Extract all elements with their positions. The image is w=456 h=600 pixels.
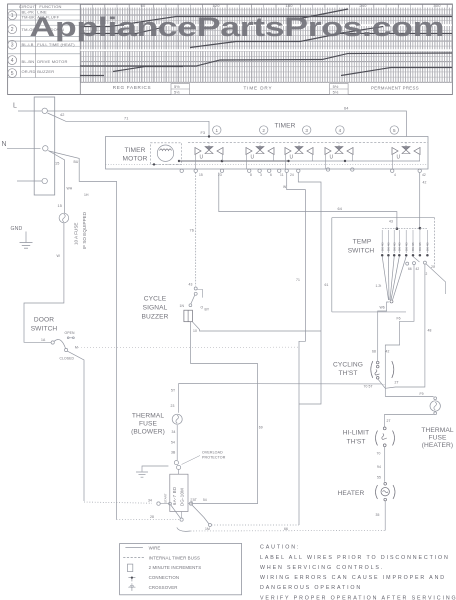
svg-text:24: 24	[290, 173, 294, 177]
temp switch pole 419.9	[419, 230, 421, 253]
svg-text:HEATER: HEATER	[338, 490, 365, 497]
svg-text:5½: 5½	[174, 90, 180, 95]
svg-text:6A-7 BD: 6A-7 BD	[172, 487, 177, 505]
svg-text:CYCLE: CYCLE	[144, 296, 167, 303]
wire buzzer to motor switch	[191, 322, 258, 504]
wire heater return	[384, 501, 386, 531]
svg-text:71: 71	[296, 278, 300, 282]
svg-text:35: 35	[376, 513, 380, 517]
wire fuse to overload	[176, 425, 178, 460]
svg-text:2: 2	[262, 128, 265, 133]
overload protector	[174, 461, 178, 465]
timer terminal circles	[180, 169, 183, 172]
svg-text:(BLOWER): (BLOWER)	[131, 429, 165, 436]
svg-text:60: 60	[141, 3, 146, 8]
wire 10 buzzer output	[192, 322, 321, 331]
svg-text:3B: 3B	[171, 451, 176, 455]
svg-text:DANGEROUS OPERATION: DANGEROUS OPERATION	[260, 585, 362, 591]
open contact glyph	[67, 337, 69, 339]
svg-text:1.2t: 1.2t	[376, 284, 382, 288]
wire door switch to motor	[68, 351, 85, 501]
svg-text:66: 66	[408, 267, 412, 271]
svg-text:IF SO EQUIPPED: IF SO EQUIPPED	[82, 211, 87, 249]
svg-text:8: 8	[250, 173, 252, 177]
svg-text:5½: 5½	[333, 84, 339, 89]
svg-text:34: 34	[172, 430, 176, 434]
svg-text:U: U	[397, 155, 401, 161]
svg-text:15: 15	[55, 162, 59, 166]
wire N to terminal block	[7, 147, 41, 149]
svg-text:GND: GND	[11, 226, 23, 232]
svg-text:42: 42	[423, 181, 427, 185]
buzzer switch arm	[191, 295, 195, 304]
svg-text:BK 4B: BK 4B	[411, 242, 415, 251]
legend box	[120, 544, 242, 595]
timer contact stems	[195, 155, 197, 169]
svg-text:2: 2	[11, 27, 14, 33]
svg-text:2T: 2T	[387, 419, 391, 423]
svg-text:5½: 5½	[333, 90, 339, 95]
svg-text:VERIFY PROPER OPERATION AFTER: VERIFY PROPER OPERATION AFTER SERVICING	[260, 595, 456, 600]
svg-text:BU: BU	[74, 160, 79, 164]
wire terminal 3 stub	[17, 180, 42, 182]
timer sequence chart	[8, 3, 453, 94]
svg-text:23: 23	[171, 404, 175, 408]
legend internal timer buss	[123, 557, 145, 559]
svg-text:L: L	[13, 103, 17, 110]
svg-text:42: 42	[416, 267, 420, 271]
svg-text:WIRE: WIRE	[149, 545, 161, 550]
svg-text:FUSE: FUSE	[429, 435, 447, 442]
svg-text:DG-10M: DG-10M	[180, 488, 185, 506]
timer cam switch 2	[260, 126, 268, 134]
svg-text:2: 2	[426, 272, 428, 276]
fuse symbol	[172, 414, 182, 424]
wire 76 timer to buzzer	[195, 173, 197, 287]
legend wire	[125, 547, 142, 549]
svg-text:SWITCH: SWITCH	[348, 248, 375, 255]
wire fuse to door switch	[24, 223, 64, 342]
svg-text:42: 42	[422, 173, 426, 177]
timer cam switch 3	[303, 126, 311, 134]
svg-text:BK 4B: BK 4B	[418, 242, 422, 251]
timer common rail	[179, 160, 420, 162]
svg-text:START: START	[164, 493, 168, 503]
svg-text:94: 94	[377, 465, 381, 469]
svg-text:FUSE: FUSE	[139, 421, 157, 428]
svg-text:BY: BY	[205, 308, 210, 312]
temp switch S2	[332, 217, 435, 219]
svg-text:1: 1	[11, 13, 14, 19]
temp switch fan-out	[390, 300, 393, 303]
svg-text:DRIVE MOTOR: DRIVE MOTOR	[37, 59, 67, 64]
svg-text:U: U	[200, 155, 204, 161]
svg-text:20: 20	[431, 265, 435, 269]
svg-text:BK 4B: BK 4B	[398, 242, 402, 251]
fuse F1 10A	[59, 213, 69, 223]
svg-text:BUZZER: BUZZER	[142, 314, 169, 321]
svg-text:43: 43	[389, 220, 393, 224]
svg-text:120: 120	[212, 3, 220, 8]
svg-text:61: 61	[325, 283, 329, 287]
svg-text:TIMER: TIMER	[124, 147, 145, 154]
svg-text:WIRING ERRORS CAN CAUSE IMPROP: WIRING ERRORS CAN CAUSE IMPROPER AND	[260, 575, 446, 581]
svg-text:1: 1	[215, 128, 218, 133]
wire thermal fuse to hi-limit	[385, 415, 434, 427]
svg-text:CYCLING: CYCLING	[333, 362, 363, 369]
drive motor M2	[170, 474, 188, 511]
svg-text:W: W	[57, 254, 61, 258]
svg-text:71: 71	[124, 116, 128, 120]
svg-text:55: 55	[377, 476, 381, 480]
wire buss to blower fuse	[178, 384, 180, 413]
svg-text:15: 15	[58, 204, 62, 208]
svg-text:54: 54	[203, 498, 207, 502]
legend connection	[128, 577, 135, 579]
svg-text:28: 28	[150, 515, 154, 519]
wire F9 to thermal fuse heater	[385, 396, 433, 398]
svg-text:SIGNAL: SIGNAL	[143, 305, 168, 312]
svg-text:(HEATER): (HEATER)	[422, 442, 453, 449]
wire timer drop via 61	[298, 173, 321, 405]
temp switch pole 427.4	[426, 230, 428, 253]
ground (motor frame)	[142, 466, 168, 472]
svg-text:300: 300	[433, 3, 441, 8]
svg-text:CIRCUIT: CIRCUIT	[19, 4, 37, 9]
svg-text:11: 11	[280, 173, 284, 177]
svg-text:64: 64	[338, 207, 342, 211]
temp switch pole 399.3	[398, 230, 400, 253]
svg-text:F3: F3	[201, 131, 206, 135]
legend crossover	[128, 586, 135, 588]
temp switch pole 406.2	[405, 230, 407, 253]
svg-text:DOOR: DOOR	[34, 317, 54, 324]
svg-text:OPEN: OPEN	[65, 331, 75, 335]
svg-text:AppliancePartsPros.com: AppliancePartsPros.com	[30, 11, 445, 42]
svg-text:1A: 1A	[41, 338, 46, 342]
wire 48 bypass	[385, 264, 425, 388]
temp switch pole 394.2	[393, 230, 395, 253]
svg-text:REG FABRICS: REG FABRICS	[113, 85, 152, 90]
svg-text:1N: 1N	[180, 304, 185, 308]
svg-text:70: 70	[377, 452, 381, 456]
svg-text:PROTECTOR: PROTECTOR	[202, 456, 226, 460]
svg-text:BK 4B: BK 4B	[392, 242, 396, 251]
svg-text:54: 54	[171, 441, 175, 445]
svg-text:180: 180	[285, 3, 293, 8]
temp switch pole 382.2	[381, 230, 383, 253]
svg-text:HI-LIMIT: HI-LIMIT	[343, 430, 369, 437]
svg-text:U: U	[330, 155, 334, 161]
svg-text:THERMAL: THERMAL	[421, 427, 453, 434]
svg-text:66: 66	[284, 527, 288, 531]
svg-text:2T: 2T	[395, 381, 399, 385]
svg-text:5½: 5½	[174, 84, 180, 89]
wire F6	[385, 265, 414, 361]
svg-text:240: 240	[359, 3, 367, 8]
svg-text:TIMER: TIMER	[274, 123, 295, 130]
svg-text:INTERNAL TIMER BUSS: INTERNAL TIMER BUSS	[149, 555, 200, 560]
wire W6 to cycling thermostat	[378, 302, 389, 361]
svg-text:BK 4B: BK 4B	[404, 242, 408, 251]
svg-text:5: 5	[11, 71, 14, 77]
wire L to terminal block	[18, 110, 42, 112]
svg-text:42: 42	[60, 113, 64, 117]
svg-text:OVERLOAD: OVERLOAD	[202, 451, 223, 455]
svg-text:2 MINUTE INCREMENTS: 2 MINUTE INCREMENTS	[149, 565, 202, 570]
svg-text:BK 4B: BK 4B	[380, 242, 384, 251]
timer cam switch 1	[213, 126, 221, 134]
svg-text:5T: 5T	[193, 498, 197, 502]
timer cam switch 5	[390, 126, 398, 134]
wire 42 timer 5 to temp switch	[419, 173, 421, 228]
svg-text:O: O	[201, 306, 204, 310]
svg-text:64: 64	[344, 107, 348, 111]
svg-text:10: 10	[193, 329, 197, 333]
svg-text:1M: 1M	[205, 527, 210, 531]
svg-text:3: 3	[260, 173, 262, 177]
svg-text:F9: F9	[420, 392, 424, 396]
svg-text:76: 76	[190, 229, 194, 233]
svg-text:PERMANENT PRESS: PERMANENT PRESS	[371, 85, 419, 90]
svg-text:3: 3	[11, 43, 14, 49]
svg-text:3: 3	[305, 128, 308, 133]
svg-text:U: U	[251, 155, 255, 161]
terminal block TB1	[34, 97, 55, 195]
svg-text:LABEL ALL WIRES PRIOR TO DISCO: LABEL ALL WIRES PRIOR TO DISCONNECTION	[260, 555, 450, 561]
svg-text:4: 4	[11, 58, 14, 64]
svg-text:6: 6	[270, 173, 272, 177]
temp switch pole 413	[412, 230, 414, 253]
svg-text:FULL TIME (HEAT): FULL TIME (HEAT)	[37, 42, 75, 47]
svg-text:69: 69	[259, 426, 263, 430]
svg-text:MOTOR: MOTOR	[123, 156, 148, 163]
wire heater feed buss	[179, 383, 386, 385]
svg-text:FUNCTION: FUNCTION	[39, 4, 61, 9]
svg-text:SWITCH: SWITCH	[31, 326, 58, 333]
svg-text:CLOSED: CLOSED	[60, 357, 75, 361]
svg-text:34: 34	[148, 499, 152, 503]
svg-text:TH'ST: TH'ST	[347, 439, 366, 446]
svg-text:TH'ST: TH'ST	[339, 370, 358, 377]
svg-text:BK 4B: BK 4B	[387, 242, 391, 251]
svg-text:THERMAL: THERMAL	[132, 413, 164, 420]
svg-text:W6: W6	[380, 306, 385, 310]
svg-text:5T: 5T	[171, 389, 175, 393]
svg-text:BK 4B: BK 4B	[426, 242, 430, 251]
svg-text:WH: WH	[67, 187, 73, 191]
wire heater return (dotted)	[191, 530, 386, 533]
svg-text:BUZZER: BUZZER	[37, 69, 54, 74]
svg-text:5: 5	[393, 128, 396, 133]
svg-text:48: 48	[428, 329, 432, 333]
svg-text:CAUTION:: CAUTION:	[260, 545, 300, 551]
timer motor M1	[151, 143, 182, 165]
svg-text:TEMP: TEMP	[353, 239, 372, 246]
wire 64 timer to temp switch	[219, 173, 397, 228]
svg-text:4: 4	[394, 173, 396, 177]
mechanical dashed link from door switch	[75, 346, 299, 348]
watermark	[30, 11, 445, 42]
svg-text:4: 4	[339, 128, 342, 133]
temp switch pole 388.4	[387, 230, 389, 253]
svg-text:10 A FUSE: 10 A FUSE	[74, 223, 79, 245]
internal timer buss dashed	[188, 141, 428, 143]
svg-text:15: 15	[199, 173, 203, 177]
svg-text:BL-BN: BL-BN	[22, 59, 35, 64]
svg-text:WHEN SERVICING CONTROLS.: WHEN SERVICING CONTROLS.	[260, 565, 384, 571]
thermal fuse (heater) F3	[434, 397, 437, 400]
svg-text:68: 68	[372, 350, 376, 354]
legend 2 minute increments	[128, 564, 133, 572]
svg-text:1H: 1H	[84, 193, 89, 197]
timer cam switch 4	[336, 126, 344, 134]
svg-text:N: N	[2, 141, 7, 148]
svg-text:BL-LB: BL-LB	[22, 42, 34, 47]
svg-text:TIME DRY: TIME DRY	[243, 85, 272, 90]
svg-text:U: U	[290, 155, 294, 161]
wire hi-limit to heater	[384, 447, 386, 482]
svg-text:F6: F6	[397, 317, 401, 321]
svg-text:42: 42	[386, 350, 390, 354]
timer assembly box	[106, 137, 429, 170]
svg-text:CROSSOVER: CROSSOVER	[149, 585, 178, 590]
svg-text:OR-RD: OR-RD	[22, 69, 36, 74]
wire 20 stub	[426, 264, 445, 294]
svg-text:70 5T: 70 5T	[364, 385, 373, 389]
wire timer drop to neutral buss	[287, 173, 306, 526]
svg-text:CONNECTION: CONNECTION	[149, 575, 180, 580]
svg-text:43: 43	[189, 283, 193, 287]
